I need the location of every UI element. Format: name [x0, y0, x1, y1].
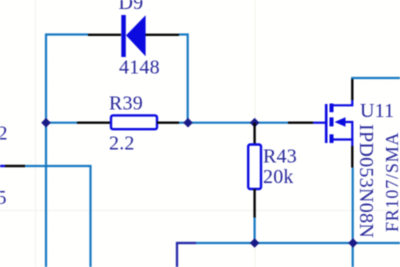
wire: diode loop right vertical (cyan) — [187, 33, 189, 122]
wire: R43 top pin black — [253, 123, 255, 145]
channel segment top — [330, 104, 334, 113]
junction R43 top — [250, 118, 260, 128]
wire: bottom net corner and down — [177, 243, 400, 267]
wire: R39 right pin black — [157, 121, 179, 123]
wire: main row cyan from left junction to R39 pin — [46, 122, 77, 124]
wire: R43 bottom pin black — [253, 189, 255, 218]
wire: left edge black segment — [5, 165, 25, 167]
wire: diode left pin (black) — [88, 34, 121, 36]
svg-text:D9: D9 — [119, 0, 144, 14]
grid line vertical 2 — [255, 0, 256, 267]
wire: gate black segment — [288, 121, 313, 123]
wire: left edge blue pin stub — [0, 165, 5, 167]
junction left (node A) — [41, 118, 51, 128]
channel segment middle — [330, 117, 334, 126]
junction diode-right — [183, 118, 193, 128]
wire: main row cyan junction2 to junction3 — [179, 122, 288, 124]
svg-text:4148: 4148 — [119, 57, 160, 79]
wire: bottom-left navy overlay — [177, 243, 196, 267]
grid line horizontal — [0, 210, 400, 211]
svg-text:20k: 20k — [263, 166, 294, 188]
wire: drain top cyan horizontal — [351, 77, 400, 79]
wire: diode loop left vertical (cyan) — [45, 35, 47, 267]
source line — [334, 140, 353, 147]
body arrow of U11 — [335, 117, 346, 127]
grid line vertical — [35, 0, 36, 267]
wire: diode right pin (black) — [146, 34, 180, 36]
wire: source black vertical — [351, 146, 353, 168]
svg-text:R43: R43 — [263, 146, 297, 168]
wire: R39 left pin black — [77, 121, 111, 123]
gate bar — [325, 104, 328, 143]
wire: gate blue pin — [313, 122, 325, 124]
resistor R39 — [111, 115, 157, 129]
diode D9 — [121, 15, 145, 57]
svg-text:2.2: 2.2 — [109, 133, 135, 155]
wire: diode top horizontal cyan right part — [179, 33, 188, 35]
wire: diode top horizontal cyan left part — [45, 33, 88, 35]
body line — [344, 122, 352, 140]
svg-text:2: 2 — [0, 123, 8, 145]
junction U11 source bottom — [348, 238, 358, 248]
wire: drain black vertical — [351, 78, 353, 100]
transistor U11 (N-MOSFET) — [326, 100, 352, 146]
svg-text:FR107/SMA: FR107/SMA — [382, 132, 400, 232]
svg-text:R39: R39 — [109, 93, 143, 115]
wire: R43 bottom cyan — [254, 218, 256, 244]
channel segment bottom — [330, 134, 334, 143]
svg-text:U11: U11 — [360, 100, 394, 122]
svg-text:IPD053N08N: IPD053N08N — [355, 124, 377, 238]
junction R43 bottom — [250, 238, 260, 248]
wire: source cyan vertical down to bottom edge — [352, 168, 354, 267]
wire: row y166 cyan to corner — [25, 166, 91, 267]
resistor R43 — [248, 145, 261, 190]
drain line — [334, 100, 353, 105]
svg-text:5: 5 — [0, 187, 7, 209]
